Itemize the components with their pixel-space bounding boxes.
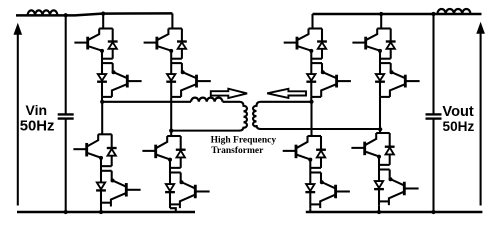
wire: cell bottom bar at S3 [101, 202, 111, 204]
node: secondary top / leg C junction [309, 100, 313, 104]
arrow: Vout polarity (up) [477, 23, 484, 33]
diode S6Da (antiparallel, cathode up) [386, 29, 396, 59]
transistor S3a (top IGBT) [73, 134, 103, 160]
capacitor Cout upper lead [432, 14, 434, 114]
wire: leg C lower link crossing secondary bottom lead [310, 102, 312, 136]
wire: S4 common-emitter link [170, 159, 181, 208]
transistor S4b (bottom IGBT, mirrored) [180, 180, 210, 208]
diode S4Db (antiparallel, cathode down) [165, 184, 175, 192]
wire: cell top bar at S6 [377, 27, 391, 29]
inductor Ls (series link inductor) [191, 98, 223, 102]
wire: S1 common-emitter link [102, 51, 113, 97]
wire: S2 common-emitter link [171, 51, 182, 97]
wire: cell top bar at S8 [376, 132, 390, 134]
capacitor Cin upper lead [65, 15, 67, 113]
node: leg A / bottom rail junction [99, 210, 103, 214]
svg-text:High Frequency: High Frequency [211, 136, 277, 146]
svg-text:Vout: Vout [442, 104, 473, 120]
wire: cell top bar at S1 [99, 27, 113, 29]
transistor S1b (bottom IGBT, mirrored) [112, 70, 142, 97]
power-flow arrow (left, pointing right) [211, 89, 247, 98]
transistor S8a (top IGBT) [351, 133, 381, 159]
wire: primary rail from leg A to series inductor (crosses leg B) [102, 101, 191, 103]
diode S8Db (antiparallel, cathode down) [374, 181, 384, 189]
inductor Lin (input filter) [28, 10, 58, 15]
wire: leg D to bottom rail [378, 205, 380, 212]
wire: bottom rail left section [17, 211, 195, 213]
wire: leg A lower link [101, 102, 103, 135]
transformer T1 secondary winding [253, 102, 260, 129]
wire: inductor to primary winding [223, 101, 240, 103]
diode S7Da (antiparallel, cathode up) [316, 136, 326, 168]
wire: leg C to bottom rail [309, 208, 311, 212]
wire: S6 common-emitter link [380, 51, 391, 97]
wire: leg A mid link to rail [101, 97, 103, 102]
wire: cell bottom bar at S4 [170, 203, 180, 205]
capacitor Cin lower lead [65, 119, 67, 212]
svg-text:Vin: Vin [26, 102, 48, 118]
transistor S1a (top IGBT) [74, 29, 104, 53]
wire: S7 common-emitter link [310, 159, 321, 208]
wire: Vout arrow line (right rail) [480, 31, 482, 206]
diode S1Db (antiparallel, cathode down) [97, 74, 107, 82]
node: top rail / input cap junction [64, 13, 68, 17]
wire: cell bottom bar at S1 [102, 96, 112, 98]
capacitor Cout [426, 114, 442, 118]
wire: S3 common-emitter link [101, 158, 112, 207]
node: top rail / output cap junction [431, 12, 435, 16]
diode S6Db (antiparallel, cathode down) [375, 74, 385, 82]
diode S2Da (antiparallel, cathode up) [177, 29, 187, 59]
wire: top rail right section [313, 13, 482, 15]
node: top rail / leg A junction [101, 12, 105, 16]
node: leg A / primary rail junction [100, 100, 104, 104]
diode S2Db (antiparallel, cathode down) [166, 74, 176, 82]
wire: leg B feed (top rail corner) [171, 13, 173, 28]
wire: cell top bar at S5 [309, 27, 323, 29]
transformer T1 primary winding [240, 102, 248, 131]
transistor S5b (bottom IGBT, mirrored) [321, 70, 351, 97]
transistor S3b (bottom IGBT, mirrored) [111, 179, 141, 207]
transistor S5a (top IGBT) [284, 29, 314, 53]
wire: S8 common-emitter link [379, 156, 390, 205]
wire: cell top bar at S3 [98, 133, 112, 135]
node: leg B / return rail junction [169, 129, 173, 133]
transistor S8b (bottom IGBT, mirrored) [389, 177, 419, 205]
wire: leg A to bottom rail [100, 207, 102, 213]
transistor S2b (bottom IGBT, mirrored) [181, 70, 211, 97]
wire: cell top bar at S4 [167, 135, 181, 137]
wire: cell top bar at S7 [308, 135, 322, 137]
wire: cell bottom bar at S2 [171, 96, 181, 98]
svg-text:50Hz: 50Hz [443, 119, 475, 134]
diode S4Da (antiparallel, cathode up) [176, 136, 186, 168]
wire: cell bottom bar at S8 [379, 200, 389, 202]
wire: leg A feed from top rail [102, 14, 104, 29]
wire: secondary top lead to leg C [261, 101, 312, 103]
transistor S4a (top IGBT) [142, 136, 172, 162]
node: bottom rail / Cin junction [64, 210, 68, 214]
wire: S5 common-emitter link [311, 51, 322, 97]
transistor S7a (top IGBT) [283, 136, 313, 162]
wire: bottom rail right section [306, 211, 483, 213]
transistor S6b (bottom IGBT, mirrored) [390, 70, 420, 97]
wire: leg B to bottom rail (step) [170, 208, 176, 212]
diode S8Da (antiparallel, cathode up) [385, 133, 395, 165]
transistor S7b (bottom IGBT, mirrored) [320, 180, 350, 208]
wire: leg D feed from top rail [380, 14, 382, 29]
wire: leg B lower link [170, 131, 172, 136]
wire: cell bottom bar at S7 [310, 203, 320, 205]
capacitor Cout lower lead [432, 119, 434, 212]
inductor Lout (output filter) [437, 9, 470, 14]
wire: secondary bottom lead to leg D (crosses leg C) [261, 128, 381, 130]
diode S5Db (antiparallel, cathode down) [306, 74, 316, 82]
transistor S2a (top IGBT) [144, 29, 174, 53]
diode S7Db (antiparallel, cathode down) [305, 184, 315, 192]
svg-text:50Hz: 50Hz [20, 119, 55, 135]
node: bottom rail / Cout junction [431, 210, 435, 214]
wire: cell bottom bar at S6 [380, 96, 390, 98]
node: secondary bottom / leg D junction [378, 127, 382, 131]
node: top rail / leg D junction [379, 12, 383, 16]
wire: cell bottom bar at S5 [311, 96, 321, 98]
wire: leg C mid link [310, 97, 312, 102]
wire: top rail left section [16, 13, 172, 15]
transistor S6a (top IGBT) [352, 29, 382, 53]
diode S5Da (antiparallel, cathode up) [317, 29, 327, 59]
wire: leg C feed (top rail corner) [311, 14, 313, 29]
wire: Vin arrow line (left rail) [17, 32, 19, 206]
arrow: Vin polarity (up) [14, 24, 21, 34]
wire: leg D mid link to secondary bottom lead [379, 97, 381, 133]
svg-text:Transformer: Transformer [211, 146, 264, 156]
wire: cell top bar at S2 [168, 27, 182, 29]
capacitor Cin [58, 114, 74, 118]
wire: leg B mid link crossing primary rail [170, 97, 172, 131]
diode S1Da (antiparallel, cathode up) [108, 29, 118, 59]
diode S3Da (antiparallel, cathode up) [107, 134, 117, 166]
wire: primary return rail to leg B [171, 130, 239, 132]
diode S3Db (antiparallel, cathode down) [96, 182, 106, 190]
node: leg D / bottom rail junction [377, 210, 381, 214]
power-flow arrow (right, pointing left) [267, 89, 306, 98]
